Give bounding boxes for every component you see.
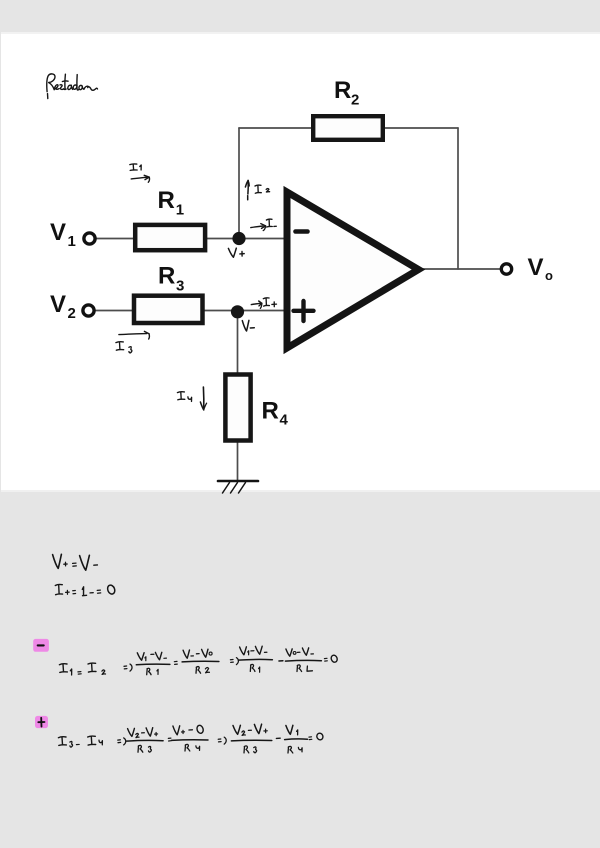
svg-text:2: 2 — [68, 305, 76, 322]
svg-text:o: o — [545, 268, 553, 283]
svg-text:1: 1 — [68, 233, 76, 250]
svg-text:R: R — [334, 77, 351, 104]
svg-text:V: V — [50, 219, 66, 246]
svg-text:2: 2 — [351, 92, 359, 109]
svg-text:V: V — [50, 291, 66, 318]
svg-text:3: 3 — [176, 278, 184, 295]
svg-text:V: V — [528, 254, 544, 281]
svg-text:4: 4 — [280, 412, 289, 429]
svg-text:R: R — [158, 263, 175, 290]
svg-text:R: R — [158, 187, 175, 214]
svg-text:1: 1 — [176, 202, 184, 219]
svg-text:R: R — [262, 398, 279, 425]
